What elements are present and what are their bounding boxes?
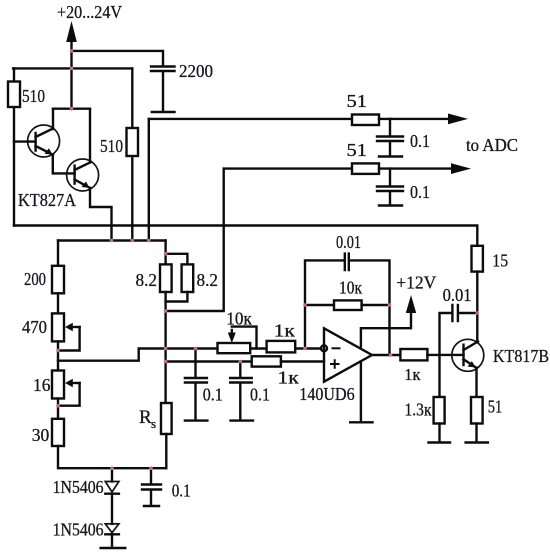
svg-text:1к: 1к bbox=[277, 368, 299, 388]
svg-text:0.1: 0.1 bbox=[172, 481, 191, 501]
svg-text:+12V: +12V bbox=[396, 273, 436, 293]
svg-text:to ADC: to ADC bbox=[466, 135, 518, 155]
svg-text:51: 51 bbox=[347, 91, 368, 111]
svg-text:30: 30 bbox=[32, 425, 50, 445]
svg-text:51: 51 bbox=[347, 140, 368, 160]
svg-text:KT817B: KT817B bbox=[493, 346, 549, 366]
svg-text:1N5406: 1N5406 bbox=[53, 520, 104, 540]
svg-text:1N5406: 1N5406 bbox=[53, 477, 104, 497]
svg-text:10к: 10к bbox=[339, 278, 362, 298]
svg-text:8.2: 8.2 bbox=[136, 270, 158, 290]
svg-text:s: s bbox=[151, 416, 156, 431]
svg-text:510: 510 bbox=[22, 86, 45, 106]
svg-text:1к: 1к bbox=[274, 321, 295, 341]
svg-text:0.1: 0.1 bbox=[250, 385, 270, 405]
svg-text:510: 510 bbox=[100, 136, 123, 156]
svg-text:15: 15 bbox=[492, 251, 508, 271]
svg-text:1.3к: 1.3к bbox=[405, 400, 432, 420]
svg-text:1к: 1к bbox=[404, 365, 421, 384]
svg-text:0.01: 0.01 bbox=[336, 232, 361, 252]
svg-text:+20...24V: +20...24V bbox=[57, 2, 122, 22]
svg-text:51: 51 bbox=[488, 397, 503, 417]
svg-text:470: 470 bbox=[22, 317, 47, 337]
svg-text:0.1: 0.1 bbox=[410, 131, 430, 151]
svg-text:0.1: 0.1 bbox=[410, 182, 430, 202]
svg-text:16: 16 bbox=[33, 375, 51, 395]
svg-text:140UD6: 140UD6 bbox=[299, 384, 354, 404]
svg-text:KT827A: KT827A bbox=[18, 190, 76, 210]
svg-text:200: 200 bbox=[24, 269, 46, 289]
svg-text:2200: 2200 bbox=[179, 61, 213, 81]
svg-text:0.01: 0.01 bbox=[443, 285, 472, 305]
svg-text:8.2: 8.2 bbox=[197, 270, 219, 290]
svg-text:0.1: 0.1 bbox=[203, 385, 223, 405]
